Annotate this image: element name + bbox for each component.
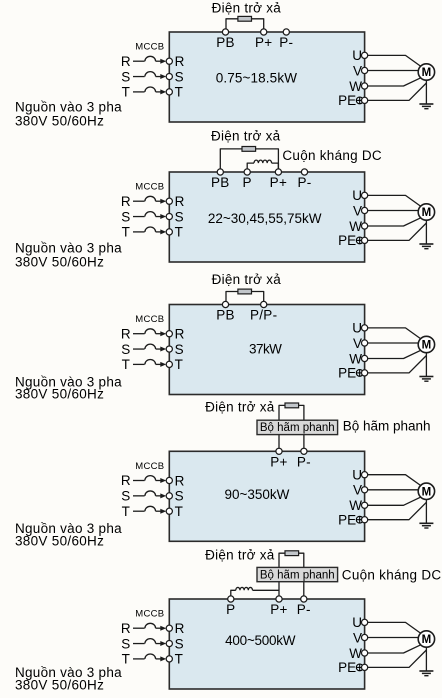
inverter box section 5 (400~500kW) [169,599,364,689]
svg-text:P/P-: P/P- [250,308,277,323]
svg-text:Nguồn vào 3 pha: Nguồn vào 3 pha [15,99,122,114]
terminal T section 5 [166,656,172,662]
svg-text:380V 50/60Hz: 380V 50/60Hz [15,387,104,402]
wire S input lead section 2 [133,216,145,218]
protective earth symbol (circle-cross) section 4 [356,516,363,523]
breaker MCCB pole T section 5 [145,654,156,659]
svg-text:M: M [422,486,432,498]
svg-text:22~30,45,55,75kW: 22~30,45,55,75kW [208,211,322,226]
wire P+ riser to resistor section 5 [279,553,285,599]
svg-text:S: S [175,69,184,84]
motor M section 2 [418,204,434,220]
wire W output section 5 [368,645,421,653]
terminal W section 2 [362,223,368,229]
svg-text:R: R [121,621,131,636]
motor M section 1 [418,64,434,80]
svg-text:P+: P+ [270,175,288,190]
svg-text:Điện trở xả: Điện trở xả [212,1,282,16]
terminal V section 2 [362,207,368,213]
terminal U section 2 [362,192,368,198]
breaker MCCB pole T section 1 [145,87,156,92]
wire U output section 4 [368,475,421,486]
svg-text:PB: PB [216,35,235,50]
terminal V section 3 [362,340,368,346]
svg-text:MCCB: MCCB [135,42,164,53]
wire U output section 3 [368,328,421,339]
wire P+ riser to resistor section 4 [279,405,285,451]
svg-text:R: R [121,194,131,209]
svg-text:P: P [243,175,252,190]
svg-text:U: U [352,48,362,63]
svg-text:PB: PB [216,308,235,323]
wire PE to earth section 5 [368,650,427,667]
terminal U section 1 [362,52,368,58]
terminal P- section 2 [301,169,307,175]
terminal P+ section 4 [276,448,282,454]
terminal S section 5 [166,640,172,646]
svg-text:V: V [353,63,362,78]
svg-text:380V 50/60Hz: 380V 50/60Hz [15,678,104,693]
wire T input lead section 3 [133,363,145,365]
breaker MCCB pole R section 5 [145,623,156,628]
inverter box section 3 (37kW) [169,305,364,395]
terminal W section 5 [362,650,368,656]
svg-text:PE: PE [338,660,356,675]
svg-text:V: V [353,630,362,645]
terminal R section 3 [166,331,172,337]
wire discharge-resistor bracket section 2 [220,149,278,172]
breaker MCCB pole S section 3 [145,344,156,349]
svg-text:MCCB: MCCB [135,609,164,620]
wire V output section 4 [368,489,419,491]
svg-text:R: R [121,54,131,69]
resistor "Dien tro xa" (braking resistor) section 5 [285,551,299,556]
svg-text:Bộ hãm phanh: Bộ hãm phanh [343,418,431,433]
wire T to terminal with arrow section 3 [156,363,161,365]
svg-text:M: M [422,340,432,352]
wire W output section 1 [368,78,421,86]
svg-text:V: V [353,483,362,498]
wire P- riser to resistor section 5 [299,553,304,599]
svg-text:Bộ hãm phanh: Bộ hãm phanh [260,422,335,434]
wire T to terminal with arrow section 4 [156,510,161,512]
breaker MCCB pole T section 4 [145,506,156,511]
svg-text:U: U [352,188,362,203]
breaker MCCB pole S section 4 [145,491,156,496]
terminal U section 4 [362,472,368,478]
terminal U section 3 [362,325,368,331]
wire R input lead section 2 [133,200,145,202]
wire R input lead section 1 [133,60,145,62]
motor M section 3 [418,336,434,352]
svg-text:380V 50/60Hz: 380V 50/60Hz [15,533,104,548]
svg-text:400~500kW: 400~500kW [225,633,296,648]
svg-text:S: S [121,636,130,651]
wire T input lead section 4 [133,510,145,512]
resistor "Dien tro xa" (braking resistor) section 3 [238,289,252,294]
wire R to terminal with arrow section 1 [156,60,161,62]
wire R to terminal with arrow section 3 [156,333,161,335]
svg-text:T: T [122,652,130,667]
svg-text:Điện trở xả: Điện trở xả [205,547,275,562]
braking unit box (Bo ham phanh) section 5 [257,567,338,581]
terminal V section 5 [362,634,368,640]
svg-text:W: W [349,646,362,661]
terminal PE section 2 [362,237,368,243]
breaker MCCB pole R section 2 [145,196,156,201]
wire S to terminal with arrow section 5 [156,643,161,645]
svg-text:Điện trở xả: Điện trở xả [205,399,275,414]
wire S input lead section 3 [133,348,145,350]
svg-text:S: S [175,342,184,357]
svg-text:P+: P+ [270,602,288,617]
wire W output section 4 [368,497,421,505]
ground symbol section 5 [419,670,433,672]
wire P- riser to resistor section 4 [299,405,304,451]
svg-text:V: V [353,203,362,218]
wire S to terminal with arrow section 4 [156,495,161,497]
svg-text:S: S [121,489,130,504]
terminal P section 5 [228,596,234,602]
terminal PB section 3 [222,301,228,307]
svg-text:S: S [175,209,184,224]
wire R to terminal with arrow section 4 [156,480,161,482]
svg-text:M: M [422,207,432,219]
wire T to terminal with arrow section 1 [156,91,161,93]
wire motor to ground section 4 [425,500,427,524]
svg-text:S: S [175,489,184,504]
svg-text:T: T [122,504,130,519]
terminal P- section 1 [283,29,289,35]
inductor DC choke (Cuon khang DC) section 2 [254,160,272,163]
breaker MCCB pole T section 3 [145,359,156,364]
svg-text:M: M [422,634,432,646]
ground symbol section 1 [419,103,433,105]
terminal PE section 3 [362,370,368,376]
svg-text:Bộ hãm phanh: Bộ hãm phanh [260,569,335,581]
breaker MCCB pole R section 3 [145,329,156,334]
terminal T section 4 [166,508,172,514]
motor M section 4 [418,483,434,499]
svg-text:T: T [122,85,130,100]
svg-text:P-: P- [297,175,311,190]
terminal PE section 4 [362,517,368,523]
terminal P- section 5 [301,596,307,602]
svg-text:R: R [175,54,185,69]
svg-text:PE: PE [338,233,356,248]
svg-text:T: T [175,85,183,100]
terminal W section 1 [362,83,368,89]
svg-text:S: S [175,636,184,651]
wire S to terminal with arrow section 3 [156,348,161,350]
wire U output section 5 [368,622,421,633]
wire motor to ground section 1 [425,80,427,104]
svg-text:Cuộn kháng DC: Cuộn kháng DC [342,567,442,582]
wire PE to earth section 3 [368,356,427,373]
svg-text:P+: P+ [270,455,288,470]
svg-text:W: W [349,351,362,366]
terminal W section 3 [362,355,368,361]
wire T input lead section 2 [133,231,145,233]
wire PE to earth section 1 [368,83,427,100]
svg-text:R: R [121,473,131,488]
wire motor to ground section 2 [425,220,427,244]
svg-text:MCCB: MCCB [135,314,164,325]
svg-text:Điện trở xả: Điện trở xả [211,128,281,143]
svg-text:PE: PE [338,93,356,108]
inverter box section 1 (0.75~18.5kW) [169,32,364,122]
terminal R section 1 [166,58,172,64]
wire U output section 1 [368,55,421,66]
svg-text:W: W [349,219,362,234]
svg-text:MCCB: MCCB [135,182,164,193]
svg-text:T: T [122,357,130,372]
breaker MCCB pole S section 1 [145,72,156,77]
svg-text:T: T [175,504,183,519]
svg-text:S: S [121,69,130,84]
braking unit box (Bo ham phanh) section 4 [257,420,338,434]
terminal P+ section 1 [261,29,267,35]
resistor "Dien tro xa" (braking resistor) section 1 [238,16,252,21]
terminal PB section 1 [222,29,228,35]
svg-text:T: T [122,225,130,240]
svg-text:380V 50/60Hz: 380V 50/60Hz [15,114,104,129]
wire S to terminal with arrow section 2 [156,216,161,218]
svg-text:W: W [349,498,362,513]
inductor DC choke (Cuon khang DC) section 5 [236,587,253,590]
svg-text:P: P [226,602,235,617]
protective earth symbol (circle-cross) section 1 [356,97,363,104]
terminal T section 2 [166,229,172,235]
wire S input lead section 4 [133,495,145,497]
svg-text:PE: PE [338,513,356,528]
wire R to terminal with arrow section 2 [156,200,161,202]
svg-text:PE: PE [338,366,356,381]
wire T input lead section 1 [133,91,145,93]
svg-text:U: U [352,615,362,630]
svg-text:S: S [121,342,130,357]
svg-text:P-: P- [297,455,311,470]
wire V output section 3 [368,342,419,344]
svg-text:380V 50/60Hz: 380V 50/60Hz [15,254,104,269]
terminal P- section 4 [301,448,307,454]
wire discharge-resistor bracket section 3 [226,292,264,305]
terminal P+ section 5 [276,596,282,602]
terminal P+ section 2 [275,169,281,175]
wire motor to ground section 3 [425,353,427,377]
svg-text:P-: P- [279,35,293,50]
wire R input lead section 5 [133,627,145,629]
wire DC-choke left riser from P section 2 [247,163,254,172]
terminal V section 4 [362,487,368,493]
breaker MCCB pole S section 5 [145,639,156,644]
svg-text:R: R [175,327,185,342]
wire R to terminal with arrow section 5 [156,627,161,629]
ground symbol section 4 [419,522,433,524]
svg-text:S: S [121,209,130,224]
resistor "Dien tro xa" (braking resistor) section 2 [242,147,256,152]
svg-text:R: R [175,621,185,636]
terminal R section 5 [166,625,172,631]
protective earth symbol (circle-cross) section 5 [356,664,363,671]
terminal PB section 2 [217,169,223,175]
ground symbol section 2 [419,243,433,245]
wire S to terminal with arrow section 1 [156,76,161,78]
svg-text:U: U [352,468,362,483]
svg-text:W: W [349,79,362,94]
svg-text:R: R [175,194,185,209]
terminal P/P- section 3 [261,301,267,307]
terminal S section 2 [166,213,172,219]
svg-text:Cuộn kháng DC: Cuộn kháng DC [282,148,382,163]
inverter box section 4 (90~350kW) [169,451,364,541]
protective earth symbol (circle-cross) section 3 [356,370,363,377]
breaker MCCB pole S section 2 [145,212,156,217]
terminal S section 1 [166,73,172,79]
svg-text:R: R [121,326,131,341]
svg-text:P+: P+ [255,35,273,50]
wire U output section 2 [368,195,421,206]
wire PE to earth section 4 [368,502,427,519]
svg-text:0.75~18.5kW: 0.75~18.5kW [216,71,297,86]
ground symbol section 3 [419,376,433,378]
wire discharge-resistor bracket section 1 [226,19,264,32]
svg-text:T: T [175,652,183,667]
wire DC-choke link to P+ riser section 2 [272,163,279,172]
breaker MCCB pole T section 2 [145,227,156,232]
svg-text:M: M [422,67,432,79]
terminal R section 4 [166,477,172,483]
wire W output section 2 [368,218,421,226]
terminal R section 2 [166,198,172,204]
terminal T section 3 [166,361,172,367]
terminal V section 1 [362,67,368,73]
protective earth symbol (circle-cross) section 2 [356,237,363,244]
terminal PE section 5 [362,664,368,670]
breaker MCCB pole R section 1 [145,56,156,61]
svg-text:P-: P- [297,602,311,617]
terminal PE section 1 [362,97,368,103]
svg-text:Nguồn vào 3 pha: Nguồn vào 3 pha [15,241,122,256]
terminal T section 1 [166,89,172,95]
wire R input lead section 4 [133,480,145,482]
wire DC-choke left riser from P section 5 [231,590,236,599]
svg-text:MCCB: MCCB [135,461,164,472]
wire T to terminal with arrow section 2 [156,231,161,233]
terminal U section 5 [362,619,368,625]
wire R input lead section 3 [133,333,145,335]
wire T input lead section 5 [133,658,145,660]
wire motor to ground section 5 [425,647,427,671]
motor M section 5 [418,631,434,647]
svg-text:37kW: 37kW [249,342,282,357]
svg-text:T: T [175,225,183,240]
wire V output section 2 [368,210,419,212]
svg-text:R: R [175,473,185,488]
wire DC-choke link to P+ riser section 5 [253,589,280,591]
wire S input lead section 5 [133,643,145,645]
terminal S section 3 [166,346,172,352]
svg-text:T: T [175,357,183,372]
breaker MCCB pole R section 4 [145,476,156,481]
wire V output section 5 [368,637,419,639]
svg-text:V: V [353,336,362,351]
resistor "Dien tro xa" (braking resistor) section 4 [285,403,299,408]
wire T to terminal with arrow section 5 [156,658,161,660]
svg-text:Điện trở xả: Điện trở xả [212,272,282,287]
terminal P section 2 [244,169,250,175]
wire PE to earth section 2 [368,223,427,240]
wire V output section 1 [368,70,419,72]
svg-text:U: U [352,321,362,336]
wire S input lead section 1 [133,76,145,78]
terminal S section 4 [166,493,172,499]
terminal W section 4 [362,502,368,508]
inverter box section 2 (22~30,45,55,75kW) [169,172,364,262]
wire W output section 3 [368,350,421,358]
svg-text:90~350kW: 90~350kW [224,487,289,502]
svg-text:PB: PB [211,175,230,190]
